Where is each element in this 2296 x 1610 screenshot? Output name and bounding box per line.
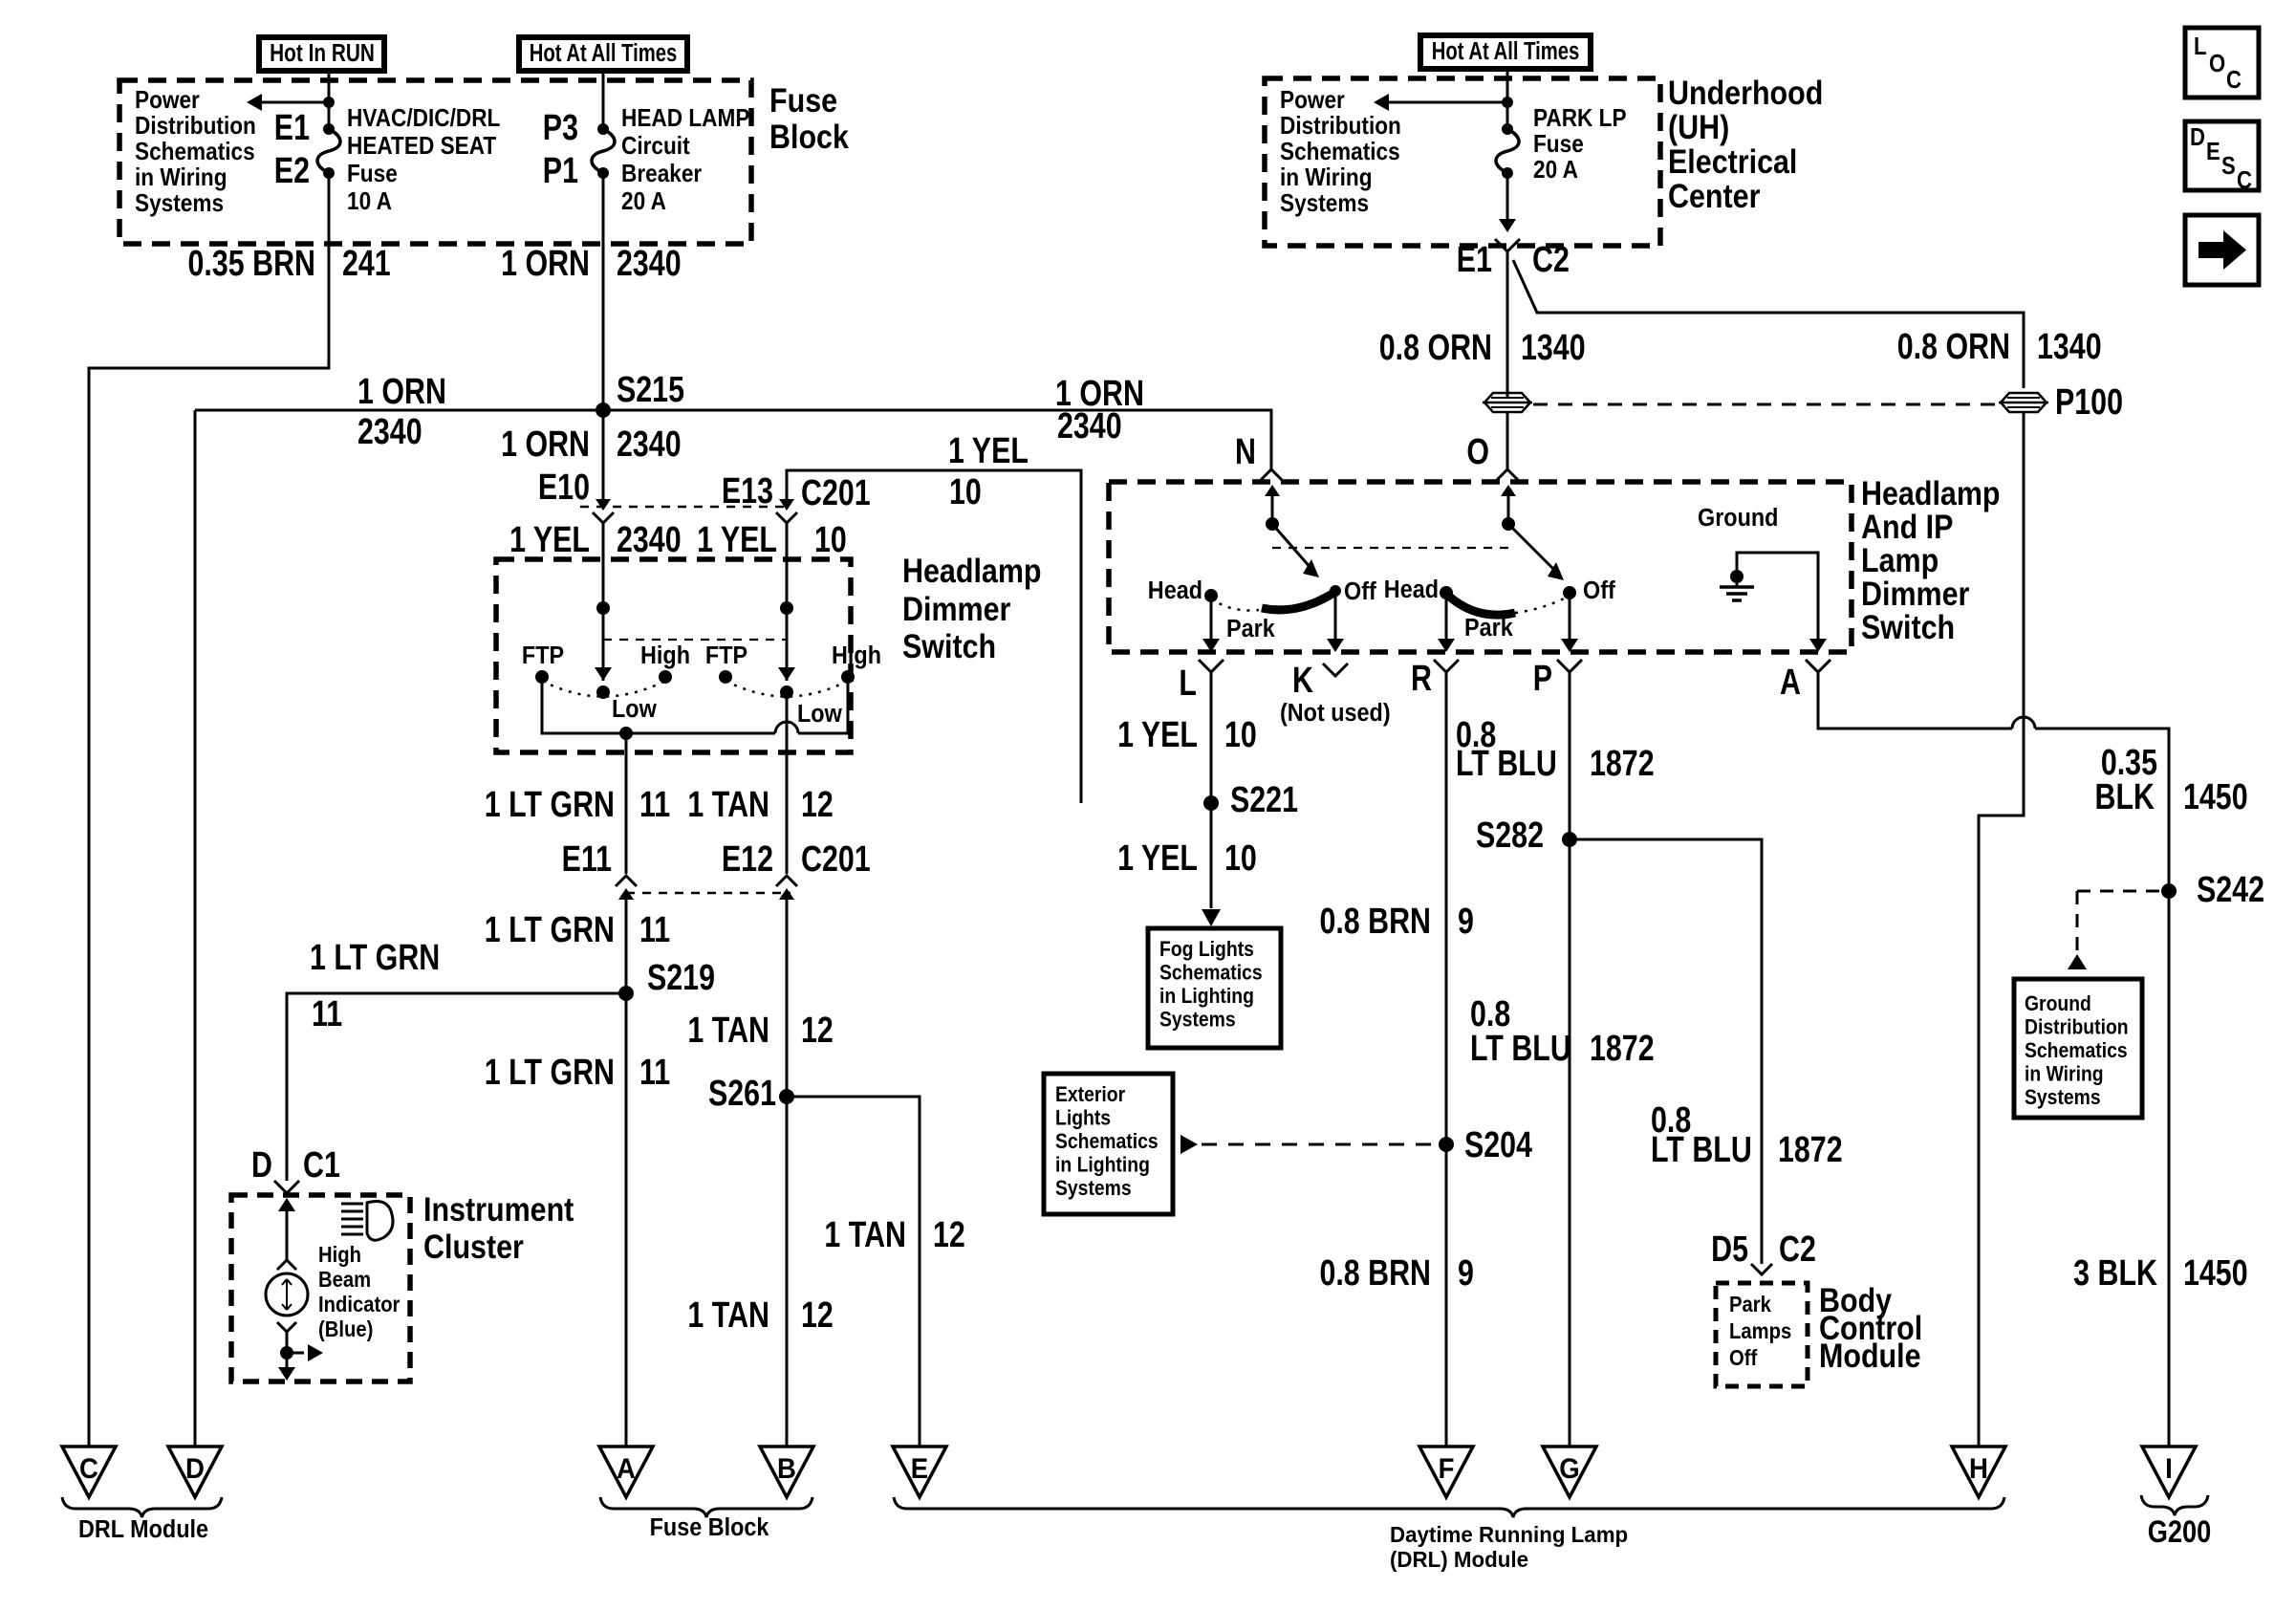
svg-text:2340: 2340	[617, 424, 682, 465]
wire: ground to A output	[1737, 553, 1818, 641]
svg-text:0.8 BRN: 0.8 BRN	[1319, 1253, 1431, 1294]
svg-text:(UH): (UH)	[1668, 108, 1729, 145]
wire: C2 diagonal branch to P100 leg	[1513, 260, 2024, 388]
svg-text:in Wiring: in Wiring	[2025, 1062, 2104, 1085]
svg-text:Schematics: Schematics	[2025, 1039, 2128, 1062]
svg-text:1 LT GRN: 1 LT GRN	[485, 785, 615, 825]
high beam indicator lamp (Blue)	[266, 1273, 308, 1316]
svg-text:F: F	[1439, 1453, 1455, 1485]
svg-text:P3: P3	[543, 108, 578, 148]
wire: low output down to fuse block A	[625, 733, 628, 874]
wire: branch down to DRL module D	[194, 410, 197, 1447]
svg-text:1 ORN: 1 ORN	[501, 424, 590, 465]
svg-text:Hot At All Times: Hot At All Times	[1432, 37, 1580, 65]
connector C201 pin E10 (inline, dashed)	[580, 506, 787, 509]
svg-text:B: B	[777, 1453, 796, 1485]
svg-text:Systems: Systems	[1159, 1008, 1236, 1031]
component box: Underhood (UH) Electrical Center (dashed)	[1265, 78, 1660, 246]
dotted travel arc right switch	[726, 681, 848, 697]
svg-text:PARK LP: PARK LP	[1533, 105, 1627, 133]
switch 2 dotted Park-Off curve	[1515, 596, 1570, 613]
connector C201 pin E12	[776, 876, 797, 886]
wire: K output (not used)	[1334, 593, 1337, 641]
svg-text:S: S	[2221, 152, 2236, 180]
svg-text:S261: S261	[708, 1074, 776, 1114]
svg-text:O: O	[1466, 432, 1489, 472]
icon box: DESC	[2185, 121, 2259, 190]
wire+arrow: fuse output to connector E1/C2	[1506, 173, 1509, 220]
svg-text:1340: 1340	[1521, 328, 1586, 368]
wire: R down to DRL module F	[1445, 672, 1448, 1447]
junction S204	[1439, 1137, 1454, 1152]
svg-text:in Lighting: in Lighting	[1159, 985, 1254, 1008]
svg-text:R: R	[1411, 659, 1432, 699]
connector C2 pin D5	[1751, 1264, 1772, 1274]
svg-text:E1: E1	[274, 108, 310, 148]
svg-text:3 BLK: 3 BLK	[2073, 1253, 2157, 1294]
svg-text:Low: Low	[797, 701, 842, 728]
svg-text:C1: C1	[303, 1145, 340, 1186]
svg-text:O: O	[2209, 50, 2225, 77]
svg-text:10: 10	[949, 472, 982, 512]
switch 1 pivot and arm to Off	[1266, 517, 1279, 531]
svg-text:HEATED SEAT: HEATED SEAT	[347, 133, 496, 161]
svg-text:1 LT GRN: 1 LT GRN	[485, 1053, 615, 1093]
component box: Fuse Block (dashed)	[119, 80, 751, 244]
junction S282	[1562, 832, 1577, 847]
svg-text:E11: E11	[562, 839, 612, 880]
wire: A down and right to BLK leg with hump over ORN wire	[1818, 673, 2012, 729]
svg-text:2340: 2340	[1057, 406, 1122, 446]
svg-text:12: 12	[801, 1011, 834, 1051]
wire: R output	[1445, 595, 1448, 641]
svg-text:1450: 1450	[2183, 1253, 2248, 1294]
connector triangle A (fuse block)	[599, 1447, 653, 1497]
arrow to power distribution (UH)	[1377, 101, 1507, 104]
brace: Fuse Block	[600, 1497, 812, 1517]
svg-text:1 LT GRN: 1 LT GRN	[310, 938, 440, 978]
wire: 1 YEL from fog light tap to E13	[787, 470, 1081, 803]
icon box: next-page arrow	[2185, 215, 2259, 285]
junction S215	[596, 402, 611, 418]
connector K (Not used)	[1323, 664, 1348, 676]
svg-text:Head: Head	[1384, 577, 1439, 603]
component box: Headlamp Dimmer Switch (dashed)	[496, 559, 851, 752]
svg-text:Beam: Beam	[318, 1267, 371, 1293]
connector P100	[2001, 393, 2047, 412]
arrow to power distribution (left)	[250, 101, 329, 104]
svg-text:Lamp: Lamp	[1861, 541, 1939, 578]
svg-text:1 YEL: 1 YEL	[1117, 715, 1198, 755]
svg-text:D5: D5	[1711, 1229, 1748, 1270]
connector N into switch	[1261, 469, 1282, 480]
svg-text:1450: 1450	[2183, 777, 2248, 817]
svg-text:HVAC/DIC/DRL: HVAC/DIC/DRL	[347, 105, 500, 133]
svg-text:Low: Low	[612, 696, 657, 723]
fuse: PARK LP Fuse 20A	[1496, 129, 1519, 173]
connector triangle H (DRL module)	[1952, 1447, 2005, 1497]
brace: G200	[2141, 1495, 2208, 1515]
svg-text:1340: 1340	[2037, 327, 2102, 367]
svg-text:Dimmer: Dimmer	[1861, 575, 1970, 612]
svg-text:Circuit: Circuit	[621, 133, 690, 161]
svg-text:Fuse: Fuse	[769, 81, 837, 119]
svg-text:P: P	[1533, 659, 1552, 699]
svg-text:P1: P1	[543, 151, 578, 191]
svg-text:S219: S219	[647, 958, 715, 998]
switch gang dashed link (right box)	[1272, 547, 1508, 549]
svg-text:High: High	[640, 642, 690, 669]
switch 2 pivot and arm to Off	[1502, 517, 1515, 531]
svg-text:(Not used): (Not used)	[1280, 700, 1391, 727]
svg-text:L: L	[1179, 664, 1197, 704]
svg-text:12: 12	[801, 1295, 834, 1336]
svg-text:1872: 1872	[1590, 744, 1655, 784]
svg-text:LT BLU: LT BLU	[1470, 1029, 1571, 1069]
svg-text:And IP: And IP	[1861, 508, 1953, 545]
svg-text:Off: Off	[1729, 1345, 1758, 1371]
svg-text:A: A	[617, 1453, 636, 1485]
svg-text:FTP: FTP	[522, 642, 564, 669]
svg-text:Switch: Switch	[1861, 608, 1955, 645]
svg-text:D: D	[185, 1453, 205, 1485]
svg-text:Instrument: Instrument	[423, 1190, 574, 1228]
component box: Instrument Cluster (dashed)	[231, 1195, 410, 1382]
wire: L output	[1210, 600, 1213, 641]
svg-text:Hot In RUN: Hot In RUN	[270, 39, 375, 67]
svg-text:12: 12	[801, 785, 834, 825]
arrow into fog lights reference	[1210, 816, 1213, 908]
svg-text:Daytime Running Lamp: Daytime Running Lamp	[1390, 1521, 1628, 1547]
svg-text:1 TAN: 1 TAN	[687, 1295, 769, 1336]
svg-text:Cluster: Cluster	[423, 1228, 524, 1265]
connector P	[1557, 660, 1582, 672]
dashed link to ground distribution reference	[2077, 890, 2159, 893]
svg-text:Lamps: Lamps	[1729, 1318, 1791, 1344]
svg-text:20 A: 20 A	[1533, 157, 1578, 185]
svg-text:Power: Power	[1280, 87, 1345, 115]
dashed reference link to S204	[1180, 1135, 1198, 1154]
switch gang dashed link	[603, 639, 787, 641]
svg-text:High: High	[832, 642, 881, 669]
brace: Daytime Running Lamp (DRL) Module	[894, 1497, 2004, 1517]
svg-text:Switch: Switch	[902, 627, 996, 664]
svg-text:BLK: BLK	[2095, 777, 2155, 817]
svg-text:11: 11	[639, 910, 670, 950]
svg-text:C2: C2	[1532, 240, 1570, 280]
svg-text:C201: C201	[801, 839, 871, 880]
svg-text:Off: Off	[1583, 577, 1615, 604]
svg-text:1 ORN: 1 ORN	[501, 244, 590, 284]
svg-text:Breaker: Breaker	[621, 161, 703, 188]
svg-text:Off: Off	[1344, 578, 1376, 605]
svg-text:1 YEL: 1 YEL	[697, 520, 777, 560]
svg-text:1 TAN: 1 TAN	[687, 1011, 769, 1051]
svg-text:in Lighting: in Lighting	[1055, 1153, 1150, 1176]
svg-text:10 A: 10 A	[347, 188, 392, 216]
power tag box: Hot At All Times (underhood)	[1420, 35, 1591, 69]
wire: 0.8 ORN down to O	[1506, 251, 1509, 398]
svg-text:Systems: Systems	[135, 190, 224, 218]
switch 1 contacts Head/Off	[1204, 589, 1218, 602]
svg-text:C: C	[2226, 66, 2242, 94]
svg-text:2340: 2340	[357, 412, 422, 452]
svg-text:N: N	[1235, 432, 1256, 472]
svg-text:Indicator: Indicator	[318, 1292, 401, 1317]
icon box: LOC	[2185, 28, 2259, 98]
svg-text:Distribution: Distribution	[2025, 1015, 2129, 1038]
switch 1 wiper thick arc (Park to Off)	[1262, 592, 1335, 610]
wire: P output	[1569, 595, 1571, 641]
connector triangle B (fuse block)	[760, 1447, 813, 1497]
svg-text:E12: E12	[722, 839, 773, 880]
connector triangle E (DRL module)	[893, 1447, 946, 1497]
connector triangle C (DRL module)	[62, 1447, 116, 1497]
fuse F: HVAC/DIC/DRL HEATED SEAT Fuse 10A, pins E1-E2	[317, 129, 340, 173]
svg-text:11: 11	[639, 1053, 670, 1093]
junction + arrow to other circuits	[280, 1346, 293, 1360]
connector C201 pin E11 (inline, dashed)	[626, 892, 791, 895]
svg-text:0.8 BRN: 0.8 BRN	[1319, 902, 1431, 942]
svg-text:Schematics: Schematics	[1280, 139, 1400, 166]
svg-text:Fuse: Fuse	[347, 161, 398, 188]
svg-text:0.8 ORN: 0.8 ORN	[1379, 328, 1492, 368]
headlamp icon	[367, 1202, 393, 1241]
svg-text:Distribution: Distribution	[135, 113, 256, 141]
wire: E12 leg down to fuse block B (through S261)	[786, 692, 789, 874]
svg-text:C201: C201	[801, 473, 871, 513]
junction S242	[2161, 883, 2177, 899]
svg-text:E: E	[2206, 138, 2220, 165]
connector triangle F (DRL module)	[1419, 1447, 1473, 1497]
wire: O feed down into dimmer switch	[1506, 412, 1509, 470]
dotted travel arc left switch	[542, 681, 665, 697]
dashed harness link to P100	[1533, 403, 1998, 406]
component box: Body Control Module (dashed)	[1716, 1283, 1808, 1386]
wire: low-beam bus FTP to High with hump over E13 leg	[542, 677, 775, 733]
svg-text:Lights: Lights	[1055, 1106, 1111, 1129]
wire: breaker P1 down through S215 to dimmer switch	[602, 173, 605, 499]
switch arm right (E13 to Low)	[780, 601, 793, 615]
svg-text:Ground: Ground	[2025, 992, 2091, 1015]
svg-text:10: 10	[814, 520, 847, 560]
wire: P down to DRL module G	[1569, 672, 1571, 1447]
svg-text:Exterior: Exterior	[1055, 1083, 1125, 1106]
wire: E13 leg through switch down to E12 connector	[786, 522, 789, 681]
svg-text:10: 10	[1224, 715, 1257, 755]
svg-text:Headlamp: Headlamp	[1861, 474, 2001, 511]
svg-text:Center: Center	[1668, 177, 1761, 214]
svg-text:Ground: Ground	[1698, 505, 1778, 532]
power tag box: Hot In RUN	[259, 37, 384, 71]
svg-text:10: 10	[1224, 838, 1257, 879]
svg-text:E: E	[911, 1453, 928, 1485]
svg-text:9: 9	[1458, 902, 1474, 942]
svg-text:S215: S215	[617, 370, 684, 410]
component box: Headlamp And IP Lamp Dimmer Switch (dashed)	[1109, 482, 1852, 652]
svg-text:Schematics: Schematics	[1055, 1130, 1159, 1153]
svg-text:C: C	[79, 1453, 98, 1485]
wire: Hot In RUN feed down to fuse E1	[328, 71, 331, 129]
switch 2 wiper thick arc (Head to Park)	[1446, 594, 1515, 615]
wire: L down to S221	[1210, 672, 1213, 816]
svg-text:Module: Module	[1819, 1337, 1921, 1374]
connector L	[1199, 660, 1224, 672]
connector O into switch	[1497, 469, 1518, 480]
connector A	[1806, 660, 1830, 672]
svg-text:1 TAN: 1 TAN	[687, 785, 769, 825]
svg-text:Fuse Block: Fuse Block	[650, 1514, 769, 1541]
svg-text:Park: Park	[1729, 1292, 1772, 1317]
junction S219	[618, 986, 634, 1001]
svg-text:in Wiring: in Wiring	[1280, 164, 1373, 192]
svg-text:Distribution: Distribution	[1280, 113, 1401, 141]
svg-text:HEAD LAMP: HEAD LAMP	[621, 105, 749, 133]
ground symbol inside switch	[1730, 570, 1744, 583]
svg-text:High: High	[318, 1242, 361, 1268]
svg-text:Head: Head	[1148, 577, 1202, 604]
svg-text:9: 9	[1458, 1253, 1474, 1294]
svg-text:0.35 BRN: 0.35 BRN	[188, 244, 315, 284]
svg-text:Power: Power	[135, 87, 200, 115]
svg-text:1 YEL: 1 YEL	[948, 431, 1029, 471]
svg-text:L: L	[2194, 33, 2206, 60]
svg-text:Block: Block	[769, 118, 850, 155]
svg-text:Hot At All Times: Hot At All Times	[530, 39, 678, 67]
svg-text:Systems: Systems	[1280, 190, 1369, 218]
connector triangle D (DRL module)	[168, 1447, 222, 1497]
svg-text:in Wiring: in Wiring	[135, 164, 227, 192]
wire: ORN P100 leg down to DRL module H (jog)	[1979, 412, 2024, 1447]
svg-text:12: 12	[933, 1215, 965, 1255]
svg-text:Underhood: Underhood	[1668, 74, 1823, 111]
svg-text:0.8 ORN: 0.8 ORN	[1897, 327, 2010, 367]
wire: E2 output down, left, down to DRL module C	[89, 173, 329, 1447]
junction on low bus to E11	[619, 727, 633, 740]
svg-text:Headlamp: Headlamp	[902, 552, 1042, 589]
brace: DRL Module	[62, 1497, 222, 1517]
svg-text:Electrical: Electrical	[1668, 142, 1797, 180]
svg-text:Systems: Systems	[1055, 1177, 1132, 1200]
svg-text:C: C	[2237, 166, 2252, 194]
contact High (left switch)	[659, 670, 672, 684]
wire: S282 branch to body control module	[1570, 839, 1762, 1264]
svg-text:1872: 1872	[1590, 1029, 1655, 1069]
svg-text:11: 11	[312, 994, 342, 1034]
svg-text:Fuse: Fuse	[1533, 131, 1584, 159]
reference box: Ground Distribution Schematics in Wiring Systems	[2014, 979, 2142, 1118]
lamp output fork	[277, 1322, 296, 1332]
arrow down to cluster edge	[278, 1367, 295, 1381]
svg-text:20 A: 20 A	[621, 188, 666, 216]
connector C201 pin E13	[779, 499, 794, 511]
svg-text:E13: E13	[722, 471, 773, 511]
svg-text:E10: E10	[538, 468, 590, 508]
svg-text:1 YEL: 1 YEL	[1117, 838, 1198, 879]
svg-text:P100: P100	[2055, 382, 2123, 423]
switch 2 contacts Head/Off	[1440, 586, 1453, 599]
svg-text:G: G	[1559, 1453, 1579, 1485]
svg-text:C2: C2	[1779, 1229, 1816, 1270]
junction S221	[1203, 795, 1219, 811]
wire: Hot At All Times down to PARK LP fuse	[1506, 71, 1509, 129]
svg-text:S242: S242	[2197, 870, 2264, 910]
svg-text:11: 11	[639, 785, 670, 825]
contact FTP (right switch)	[719, 670, 732, 684]
power tag box: Hot At All Times (fuse block)	[519, 37, 687, 71]
svg-text:DRL Module: DRL Module	[78, 1516, 208, 1543]
connector triangle G (DRL module)	[1543, 1447, 1596, 1497]
inline pass-through connector on O wire	[1484, 393, 1530, 412]
contact FTP (left switch)	[535, 670, 549, 684]
svg-text:Schematics: Schematics	[1159, 961, 1263, 984]
svg-text:2340: 2340	[617, 244, 682, 284]
svg-text:1 TAN: 1 TAN	[824, 1215, 906, 1255]
svg-text:Systems: Systems	[2025, 1086, 2101, 1109]
connector C1 pin D	[274, 1181, 299, 1193]
svg-text:2340: 2340	[617, 520, 682, 560]
reference box: Exterior Lights Schematics in Lighting Systems	[1044, 1074, 1173, 1214]
svg-text:E1: E1	[1457, 240, 1492, 280]
connector triangle I (G200)	[2142, 1447, 2196, 1497]
contact High (right switch)	[841, 670, 855, 684]
junction S261	[779, 1089, 794, 1104]
wire: S219 branch to instrument cluster	[287, 993, 626, 1181]
svg-text:A: A	[1780, 663, 1801, 703]
svg-text:LT BLU: LT BLU	[1456, 744, 1557, 784]
svg-text:Park: Park	[1464, 615, 1513, 642]
svg-text:Schematics: Schematics	[135, 139, 255, 166]
svg-text:S282: S282	[1476, 816, 1544, 856]
svg-text:D: D	[251, 1145, 272, 1186]
svg-text:Fog Lights: Fog Lights	[1159, 938, 1254, 961]
svg-text:1 LT GRN: 1 LT GRN	[485, 910, 615, 950]
svg-text:Park: Park	[1226, 616, 1275, 642]
svg-text:I: I	[2165, 1453, 2173, 1485]
svg-text:1 YEL: 1 YEL	[509, 520, 590, 560]
svg-text:S221: S221	[1230, 780, 1298, 820]
connector R	[1434, 660, 1459, 672]
svg-text:(Blue): (Blue)	[318, 1316, 373, 1342]
connector C2 pin E1	[1495, 239, 1520, 251]
wire+arrow into cluster	[278, 1198, 295, 1211]
wire: S261 branch right down to DRL module E	[787, 1097, 920, 1447]
wire: Hot At All Times feed down to breaker P3	[602, 71, 605, 129]
svg-text:FTP: FTP	[705, 642, 747, 669]
svg-text:Dimmer: Dimmer	[902, 590, 1011, 627]
reference box: Fog Lights Schematics in Lighting Systems	[1148, 928, 1281, 1048]
switch arm left (E10 to Low)	[596, 601, 610, 615]
svg-text:G200: G200	[2148, 1515, 2212, 1550]
svg-text:LT BLU: LT BLU	[1651, 1130, 1752, 1170]
svg-text:1872: 1872	[1778, 1130, 1843, 1170]
svg-text:K: K	[1292, 661, 1313, 701]
svg-text:(DRL) Module: (DRL) Module	[1390, 1546, 1528, 1572]
svg-text:H: H	[1969, 1453, 1988, 1485]
svg-text:1 ORN: 1 ORN	[357, 372, 446, 412]
circuit breaker: HEAD LAMP Circuit Breaker 20A, pins P3-P1	[592, 129, 615, 173]
svg-text:S204: S204	[1464, 1125, 1532, 1165]
svg-text:D: D	[2190, 123, 2205, 151]
svg-text:E2: E2	[274, 151, 310, 191]
wire: S215 horizontal bus to N	[195, 410, 1271, 470]
switch 1 dotted Head-Park curve	[1211, 598, 1259, 611]
svg-text:241: 241	[342, 244, 391, 284]
